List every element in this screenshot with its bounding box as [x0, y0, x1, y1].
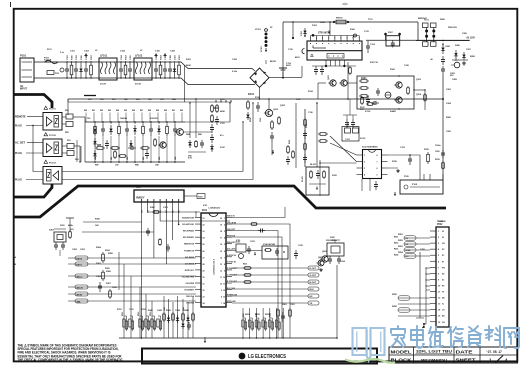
svg-text:8: 8: [352, 38, 353, 40]
svg-text:JP101: JP101: [255, 29, 262, 31]
component on rail y152: [441, 150, 445, 158]
diode column x95 d1: [93, 126, 96, 135]
svg-text:X202 4MHz: X202 4MHz: [326, 239, 337, 242]
pull-down resistor pair 4: [262, 318, 267, 331]
IC101 bottom pins: [325, 60, 327, 66]
svg-text:PLUG: PLUG: [15, 152, 22, 155]
P202 bracket wire: [426, 268, 430, 290]
wire secondary rail dot: [442, 98, 444, 100]
svg-text:BD101: BD101: [270, 61, 277, 63]
svg-text:R-OUT: R-OUT: [310, 268, 317, 270]
svg-text:BLK: BLK: [310, 289, 315, 291]
sub box around R133 R134: [342, 127, 359, 142]
IC01 right pins: [226, 217, 232, 219]
control cluster mid row r1: [95, 145, 105, 149]
crossing wire b: [330, 143, 357, 155]
resistor R123: [407, 86, 410, 95]
connector P202: [436, 220, 449, 327]
vertical wire x348 to rail99: [347, 62, 349, 99]
capacitor C101: [65, 62, 69, 78]
svg-text:IR/KEY: IR/KEY: [136, 196, 145, 200]
sheet slash: [496, 356, 504, 363]
svg-text:23: 23: [203, 231, 205, 233]
wire IC103 out right: [388, 154, 421, 156]
opto-coupler PC101: [43, 113, 62, 131]
extra part e: [154, 138, 157, 147]
zener D112: [210, 144, 213, 152]
svg-text:30: 30: [203, 277, 205, 279]
svg-text:PC103: PC103: [49, 163, 56, 165]
zener D82: [133, 125, 136, 135]
P202 lower wire y316: [398, 315, 430, 317]
capacitor C108: [168, 62, 172, 78]
crystal cap CX1: [54, 242, 58, 250]
resistor on AV2-L line: [102, 270, 105, 281]
top rail corner down: [417, 22, 419, 40]
control rail top wire: [68, 98, 443, 100]
dot comb: [204, 337, 206, 339]
pull-down resistor pair 1: [242, 318, 247, 331]
bulk capacitor C110: [279, 68, 287, 70]
svg-text:R108: R108: [250, 118, 252, 122]
pull-down resistor pair 5: [269, 318, 274, 331]
bottom left loop pair 3: [151, 316, 162, 331]
svg-text:0.22u: 0.22u: [232, 71, 238, 73]
opto-coupler PC103: [43, 167, 62, 185]
board separator thick line upper: [15, 184, 53, 197]
capacitor C142: [286, 156, 290, 165]
component R104: [159, 62, 162, 78]
AC inlet connector P101: [20, 58, 34, 82]
P202 lower oval y298: [398, 296, 410, 300]
mid vertical rail x305: [304, 109, 306, 167]
bottom left loop pair 1: [123, 316, 134, 331]
svg-text:R305: R305: [105, 268, 110, 270]
ground secondary: [462, 61, 466, 65]
reset IC box: [232, 242, 246, 259]
diode D103: [303, 28, 306, 36]
diode D302: [181, 321, 184, 329]
svg-text:KEY1: KEY1: [77, 264, 83, 266]
jumper mark near rail: [84, 95, 96, 97]
pull-down wire 2: [249, 308, 251, 338]
svg-text:RL101: RL101: [302, 176, 304, 182]
svg-text:REMOTE: REMOTE: [15, 116, 26, 119]
cap C118: [314, 66, 318, 75]
watermark character dian (electric): [411, 326, 424, 348]
svg-text:B-OUT: B-OUT: [310, 282, 317, 284]
svg-text:11: 11: [220, 277, 222, 279]
regulator IC103: [362, 146, 382, 179]
svg-text:31: 31: [203, 284, 205, 286]
svg-text:PLUG: PLUG: [15, 179, 22, 182]
IC01 bottom component 3: [172, 312, 175, 322]
junction dots secondary: [442, 43, 444, 45]
capacitor C104: [119, 62, 123, 78]
riser to C131 row: [349, 99, 351, 115]
svg-text:KEY0: KEY0: [77, 258, 83, 260]
transistor Q104: [394, 97, 402, 103]
component C103: [84, 62, 88, 78]
top rail wire: [283, 21, 418, 23]
svg-text:6: 6: [340, 38, 341, 40]
arrow below JP1: [265, 48, 267, 52]
transformer T101 compact: [423, 20, 437, 47]
opto-coupler PC102: [43, 139, 62, 157]
IC103 pins right: [382, 154, 388, 156]
svg-text:OSD-CLK: OSD-CLK: [186, 296, 195, 298]
capacitor C85: [200, 140, 204, 148]
reset sub box internals: [264, 249, 272, 252]
signal oval HS: [232, 295, 308, 297]
connector JP1 pin column: [265, 29, 268, 32]
capacitor C132: [351, 119, 355, 128]
svg-text:2: 2: [364, 162, 365, 164]
cap C305: [187, 322, 191, 330]
capacitor C307: [146, 228, 150, 236]
svg-text:27: 27: [203, 257, 205, 259]
svg-text:R85: R85: [124, 110, 127, 112]
IC101 lower inner dots: [329, 56, 330, 57]
svg-text:13: 13: [223, 297, 225, 299]
pull-down resistor pair 2: [249, 318, 254, 331]
vertical x293 to STR: [292, 22, 294, 38]
resistor R214 on wire: [250, 223, 258, 226]
fuse F101: [44, 60, 58, 63]
vertical wire left 6: [151, 301, 153, 338]
svg-text:EER3543: EER3543: [418, 17, 427, 20]
svg-text:R121 1K: R121 1K: [370, 62, 378, 64]
wire neutral to bridge: [66, 78, 255, 85]
P202 bracket stub y280: [426, 279, 430, 281]
wire IC01 sda top: [195, 212, 197, 218]
label row arrows: [215, 100, 217, 103]
svg-text:34: 34: [203, 302, 205, 305]
ground arrow mid: [272, 150, 274, 154]
svg-text:NC: NC: [406, 256, 410, 258]
pull-down wire 7: [282, 308, 284, 338]
svg-text:AV-IN: AV-IN: [77, 293, 83, 296]
resistor R132: [318, 140, 328, 143]
P201 pins: [141, 199, 143, 202]
IC103 pins left: [357, 154, 363, 156]
secondary cap C202: [441, 66, 445, 74]
svg-text:R83: R83: [108, 110, 111, 112]
resistor R82: [118, 124, 121, 136]
svg-text:R117: R117: [306, 124, 308, 128]
extra part b: [114, 150, 117, 159]
svg-text:AV1-IN/SW: AV1-IN/SW: [185, 256, 194, 259]
startup resistor R112: [211, 114, 214, 123]
tiny arrow below junction: [422, 325, 425, 328]
svg-text:C84: C84: [174, 157, 177, 160]
wire snubber top: [268, 99, 270, 109]
svg-text:8: 8: [224, 264, 225, 266]
wire PC101 pin REMOTE: [27, 116, 43, 118]
wire snubber bottom: [271, 142, 273, 155]
cap C123 in error box: [376, 88, 380, 96]
signal line AV2-L: [68, 275, 196, 277]
svg-text:LC863532C-55L5: LC863532C-55L5: [214, 258, 216, 275]
cap C210: [294, 250, 298, 259]
wires IC01 right top going right: [232, 207, 285, 218]
svg-text:CH-DN/KEY: CH-DN/KEY: [184, 290, 195, 292]
snubber transistor Q105: [264, 109, 273, 116]
capacitor C102: [74, 62, 78, 78]
signal oval G-OUT: [232, 274, 308, 276]
vertical wire left 1: [118, 252, 120, 290]
svg-text:26: 26: [203, 251, 205, 253]
svg-text:4: 4: [224, 237, 225, 240]
svg-text:3: 3: [364, 168, 365, 170]
IC01 bottom wire 3: [172, 302, 174, 338]
P202 wire 2: [404, 243, 430, 245]
svg-text:C109: C109: [260, 118, 262, 122]
IC103 bottom stub 2: [369, 179, 371, 191]
resistor R143: [292, 150, 295, 159]
error amp box: [357, 76, 414, 109]
capacitor C121: [371, 101, 379, 105]
wire secondary +B: [416, 40, 469, 42]
svg-text:2: 2: [316, 38, 317, 40]
pull-down wire 3: [255, 308, 257, 338]
svg-text:STBY-LED: STBY-LED: [227, 301, 236, 303]
wire PC102 pin AC_DET: [27, 142, 43, 144]
wire y163 to IC103: [320, 162, 357, 164]
wire rail into sub board: [442, 174, 444, 180]
resistor R86: [195, 140, 198, 148]
resistor R121: [359, 78, 369, 82]
IC101 inner pin dots: [310, 43, 311, 44]
rail y102 left segment: [68, 101, 185, 103]
svg-text:MUTE-OUT: MUTE-OUT: [185, 270, 195, 272]
svg-text:VSS/GND: VSS/GND: [186, 303, 195, 305]
snubber resistor R115: [271, 120, 274, 130]
svg-text:10: 10: [220, 284, 222, 286]
vertical wire x320: [319, 160, 321, 196]
fusible resistor FR101 on top rail: [333, 18, 349, 24]
svg-text:680K: 680K: [220, 111, 225, 113]
svg-text:R121: R121: [361, 78, 367, 80]
IC103 bottom stub 1: [361, 179, 363, 191]
IC101 rail to top wire: [329, 22, 331, 36]
svg-text:V-SYNC IN: V-SYNC IN: [227, 262, 236, 264]
svg-text:12: 12: [223, 290, 225, 292]
svg-text:R251: R251: [394, 237, 398, 239]
svg-text:R80: R80: [164, 110, 167, 112]
cap C134 below IC103: [374, 181, 378, 190]
connector P201: [134, 190, 184, 202]
IC101 bottom pin dots: [325, 65, 327, 67]
resistor R201: [69, 230, 72, 239]
capacitor C122: [366, 96, 370, 105]
svg-text:KSC815: KSC815: [150, 118, 158, 120]
svg-text:21: 21: [203, 218, 205, 220]
svg-text:R86: R86: [132, 110, 135, 112]
capacitor C83: [149, 124, 153, 136]
svg-text:R253: R253: [394, 249, 398, 251]
vertical ladder end to lower rail: [184, 66, 186, 103]
svg-text:R252: R252: [394, 243, 398, 245]
svg-text:32FL LG3T TBU: 32FL LG3T TBU: [416, 350, 453, 354]
resistor R303: [159, 238, 162, 246]
svg-text:MODEL: MODEL: [391, 350, 412, 356]
vertical wire left 7: [157, 212, 159, 338]
svg-text:6: 6: [377, 168, 378, 170]
svg-text:PC101: PC101: [49, 109, 56, 111]
wire under STR pins: [312, 65, 356, 67]
watermark character liao (material): [485, 326, 500, 347]
startup resistor R111: [211, 104, 220, 113]
pull-down resistor pair 3: [255, 318, 260, 331]
P201 stub right: [184, 195, 197, 197]
diode D83: [157, 125, 160, 135]
wire JP1 stub: [265, 60, 267, 64]
xtal X202 block: [326, 239, 344, 256]
IC01 bottom component 1: [163, 312, 166, 322]
wire secondary rail down: [442, 74, 444, 180]
capacitor C105: [128, 62, 132, 78]
scan dirt mark top: [342, 3, 348, 5]
svg-text:22: 22: [203, 225, 205, 227]
signal oval BLK: [232, 288, 308, 290]
control cluster mid row c1: [128, 146, 136, 150]
reset cap C213: [247, 246, 251, 254]
vertical wire right of comb: [336, 265, 338, 338]
svg-text:R83: R83: [143, 157, 145, 160]
capacitor C306: [166, 244, 170, 252]
resistor box R134: [353, 128, 359, 133]
svg-text:P105: P105: [412, 184, 418, 186]
component R103: [124, 62, 127, 78]
component on rail y163: [442, 161, 445, 170]
P202 lower wire y310: [398, 309, 430, 311]
P202 lower oval y310: [398, 308, 410, 312]
P202 lower wire y304: [398, 303, 430, 305]
svg-text:13: 13: [220, 264, 222, 266]
svg-text:SDA0/KEY-IN0: SDA0/KEY-IN0: [182, 217, 194, 220]
capacitor C133: [408, 155, 412, 165]
svg-text:18: 18: [220, 231, 222, 233]
crossing wire a: [330, 136, 357, 162]
svg-text:1000u: 1000u: [435, 145, 441, 147]
svg-text:7: 7: [377, 162, 378, 164]
svg-text:9: 9: [221, 290, 222, 292]
snubber box RC: [384, 32, 401, 48]
P201 pin7 wire: [178, 202, 180, 222]
svg-text:R311: R311: [122, 312, 124, 316]
svg-text:IC01: IC01: [202, 209, 208, 212]
warning triangle above PC101: [44, 106, 48, 109]
extra part a: [105, 140, 109, 149]
wire bridge bottom to rail99: [259, 87, 261, 99]
IC01 bottom wire 1: [163, 296, 165, 338]
svg-text:25: 25: [203, 244, 205, 246]
svg-text:R142: R142: [288, 140, 291, 144]
IC01 bottom component 2: [167, 315, 170, 323]
svg-text:SHEET: SHEET: [456, 358, 476, 364]
secondary cap C201: [441, 56, 445, 65]
wire live to bridge: [66, 62, 255, 71]
ground Q202: [319, 268, 323, 272]
capacitor C131: [345, 119, 349, 128]
svg-text:3: 3: [224, 231, 225, 233]
svg-text:4: 4: [328, 37, 329, 40]
component D102: [173, 63, 176, 77]
secondary rectifier D201: [441, 44, 444, 54]
svg-text:7: 7: [224, 257, 225, 259]
microcontroller IC01: [201, 208, 226, 308]
P202 lower wire y298: [398, 297, 430, 299]
IC01 bottom component 7: [192, 312, 195, 322]
pull-down wire 1: [242, 308, 244, 338]
svg-text:VL: VL: [442, 304, 444, 306]
P202 wire 1: [404, 237, 430, 239]
transistor Q101: [328, 80, 336, 86]
svg-text:9: 9: [359, 38, 360, 40]
varistor VA101: [60, 68, 64, 72]
svg-text:2: 2: [224, 225, 225, 227]
pin circle IC101 right: [354, 34, 357, 37]
svg-text:R85: R85: [97, 145, 102, 147]
svg-text:10: 10: [223, 277, 225, 279]
svg-text:' 07. 05. 17: ' 07. 05. 17: [486, 350, 502, 354]
watermark character jia (family): [391, 326, 405, 347]
signal line AV-IN: [68, 293, 196, 295]
extra part d: [145, 150, 149, 159]
svg-text:R111: R111: [214, 108, 220, 110]
resistor R261: [277, 308, 280, 318]
signal line KEY1: [68, 263, 196, 265]
svg-text:PC102: PC102: [49, 135, 56, 137]
svg-text:REMOTE-IN: REMOTE-IN: [184, 244, 195, 246]
vertical wire left 2: [123, 264, 125, 338]
arrow P201 pin7: [178, 222, 180, 226]
P202 wire 3: [404, 249, 430, 251]
IC01 bottom component 5: [182, 312, 185, 322]
capacitor C81: [101, 124, 105, 136]
relay box RL101: [306, 167, 329, 195]
IC01 bottom wire 4: [177, 296, 179, 338]
extra res row: [118, 155, 127, 158]
signal line SDA: [83, 221, 142, 223]
signal oval R-OUT: [232, 267, 308, 269]
junction dot rail x293: [292, 21, 294, 23]
watermark character xiu (repair): [448, 327, 463, 347]
resistor R122: [359, 87, 369, 90]
svg-text:1N4148: 1N4148: [120, 117, 128, 120]
component C107: [163, 62, 167, 78]
wire reset to IC: [246, 250, 262, 252]
svg-text:R84: R84: [116, 109, 119, 112]
IC101 top pins: [310, 36, 312, 42]
svg-text:R81: R81: [172, 110, 175, 112]
control cluster rail bottom: [85, 161, 185, 163]
thick chassis line upper-left: [15, 95, 53, 109]
svg-text:P202: P202: [437, 224, 443, 226]
svg-text:7: 7: [346, 38, 347, 40]
wire bridge dc out: [269, 77, 302, 79]
svg-text:27mH: 27mH: [100, 84, 106, 86]
wire PC102 pin PLUG: [26, 152, 43, 154]
svg-text:H-SYNC IN: H-SYNC IN: [227, 255, 237, 257]
signal line ABL: [68, 300, 196, 302]
wire secondary gnd row: [452, 59, 468, 61]
line filter LF102: [134, 55, 152, 81]
svg-text:5: 5: [224, 244, 225, 246]
svg-text:R221: R221: [243, 264, 247, 266]
svg-text:SCL0/KEY-IN1: SCL0/KEY-IN1: [182, 224, 194, 226]
